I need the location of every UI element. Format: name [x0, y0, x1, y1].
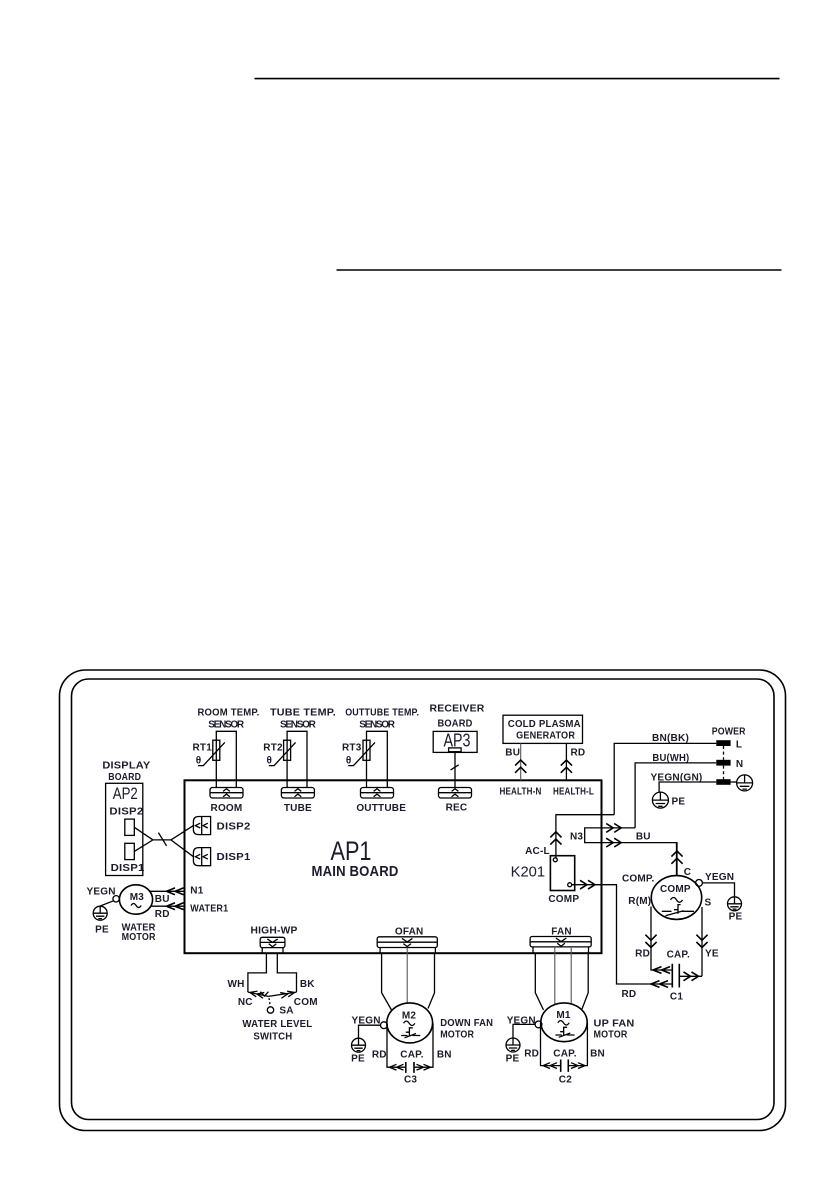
svg-text:PE: PE — [729, 912, 743, 923]
svg-text:M2: M2 — [402, 1010, 417, 1021]
svg-text:CAP.: CAP. — [400, 1050, 423, 1061]
svg-text:POWER: POWER — [712, 726, 747, 737]
svg-text:N: N — [736, 759, 743, 770]
svg-text:SENSOR: SENSOR — [359, 720, 396, 731]
svg-text:CAP.: CAP. — [553, 1049, 576, 1060]
svg-text:PE: PE — [506, 1053, 520, 1064]
svg-text:C2: C2 — [559, 1075, 572, 1086]
svg-text:BU: BU — [636, 832, 651, 843]
svg-text:CAP.: CAP. — [667, 950, 690, 961]
svg-text:YEGN: YEGN — [87, 887, 116, 898]
svg-text:BU: BU — [505, 748, 520, 759]
svg-text:DOWN FAN: DOWN FAN — [440, 1018, 493, 1029]
svg-text:DISP1: DISP1 — [217, 852, 251, 863]
svg-text:SENSOR: SENSOR — [208, 720, 245, 731]
svg-text:COMP: COMP — [660, 884, 691, 895]
svg-text:BOARD: BOARD — [438, 719, 473, 730]
svg-text:WATER1: WATER1 — [190, 904, 228, 915]
svg-text:DISP1: DISP1 — [111, 863, 145, 874]
svg-text:SWITCH: SWITCH — [253, 1031, 292, 1042]
svg-text:M3: M3 — [130, 892, 145, 903]
svg-text:YEGN: YEGN — [705, 872, 734, 883]
svg-text:PE: PE — [351, 1053, 365, 1064]
svg-text:AP2: AP2 — [113, 784, 138, 803]
svg-text:C3: C3 — [404, 1075, 417, 1086]
svg-text:COMP: COMP — [548, 894, 579, 905]
svg-text:OUTTUBE: OUTTUBE — [356, 803, 406, 814]
svg-text:DISPLAY: DISPLAY — [102, 761, 150, 772]
svg-text:MAIN BOARD: MAIN BOARD — [312, 864, 399, 880]
svg-text:RD: RD — [622, 989, 637, 1000]
svg-text:RT3: RT3 — [342, 743, 362, 754]
svg-text:DISP2: DISP2 — [109, 806, 143, 817]
svg-text:TUBE: TUBE — [284, 803, 312, 814]
svg-text:N3: N3 — [570, 832, 583, 843]
svg-text:BN: BN — [437, 1050, 452, 1061]
svg-text:NC: NC — [238, 997, 253, 1008]
svg-text:BK: BK — [300, 979, 315, 990]
svg-text:θ: θ — [196, 756, 202, 767]
svg-text:COLD PLASMA: COLD PLASMA — [508, 719, 581, 730]
svg-text:ROOM: ROOM — [211, 803, 243, 814]
svg-text:SENSOR: SENSOR — [280, 720, 317, 731]
svg-text:RT1: RT1 — [193, 743, 213, 754]
svg-text:REC: REC — [446, 803, 468, 814]
svg-text:COMP.: COMP. — [622, 874, 655, 885]
svg-text:BN(BK): BN(BK) — [652, 733, 689, 744]
svg-text:RT2: RT2 — [263, 743, 283, 754]
svg-text:PE: PE — [95, 924, 109, 935]
svg-text:MOTOR: MOTOR — [440, 1030, 475, 1041]
svg-text:HEALTH-N: HEALTH-N — [500, 786, 542, 797]
svg-text:WH: WH — [227, 979, 244, 990]
svg-text:C1: C1 — [670, 992, 683, 1003]
svg-text:S: S — [705, 897, 712, 908]
svg-text:K201: K201 — [511, 864, 546, 881]
svg-text:BN: BN — [590, 1049, 605, 1060]
svg-text:AC-L: AC-L — [525, 846, 550, 857]
svg-text:YE: YE — [705, 949, 719, 960]
svg-text:PE: PE — [672, 797, 686, 808]
svg-text:OUTTUBE TEMP.: OUTTUBE TEMP. — [345, 708, 419, 719]
svg-text:N1: N1 — [190, 886, 203, 897]
svg-text:DISP2: DISP2 — [217, 822, 251, 833]
svg-text:HEALTH-L: HEALTH-L — [553, 786, 594, 797]
svg-text:MOTOR: MOTOR — [122, 932, 157, 943]
svg-text:GENERATOR: GENERATOR — [516, 730, 576, 741]
svg-text:BU: BU — [155, 894, 170, 905]
svg-text:BOARD: BOARD — [108, 772, 141, 783]
svg-text:θ: θ — [346, 756, 352, 767]
svg-text:TUBE TEMP.: TUBE TEMP. — [270, 708, 336, 719]
svg-text:R(M): R(M) — [628, 896, 651, 907]
svg-text:RD: RD — [635, 949, 650, 960]
svg-text:UP FAN: UP FAN — [594, 1019, 635, 1030]
svg-text:L: L — [736, 740, 742, 751]
svg-text:COM: COM — [294, 997, 318, 1008]
svg-text:MOTOR: MOTOR — [594, 1030, 629, 1041]
svg-text:RD: RD — [524, 1049, 539, 1060]
svg-text:HIGH-WP: HIGH-WP — [251, 925, 298, 936]
svg-text:θ: θ — [266, 756, 272, 767]
svg-text:ROOM TEMP.: ROOM TEMP. — [198, 708, 260, 719]
svg-text:M1: M1 — [556, 1010, 571, 1021]
svg-text:WATER LEVEL: WATER LEVEL — [242, 1019, 312, 1030]
svg-text:RD: RD — [372, 1050, 387, 1061]
svg-text:SA: SA — [279, 1005, 293, 1016]
svg-text:RD: RD — [155, 909, 170, 920]
svg-text:AP1: AP1 — [331, 836, 372, 866]
svg-text:RECEIVER: RECEIVER — [430, 704, 486, 715]
svg-text:RD: RD — [571, 747, 586, 758]
svg-text:OFAN: OFAN — [395, 927, 424, 938]
